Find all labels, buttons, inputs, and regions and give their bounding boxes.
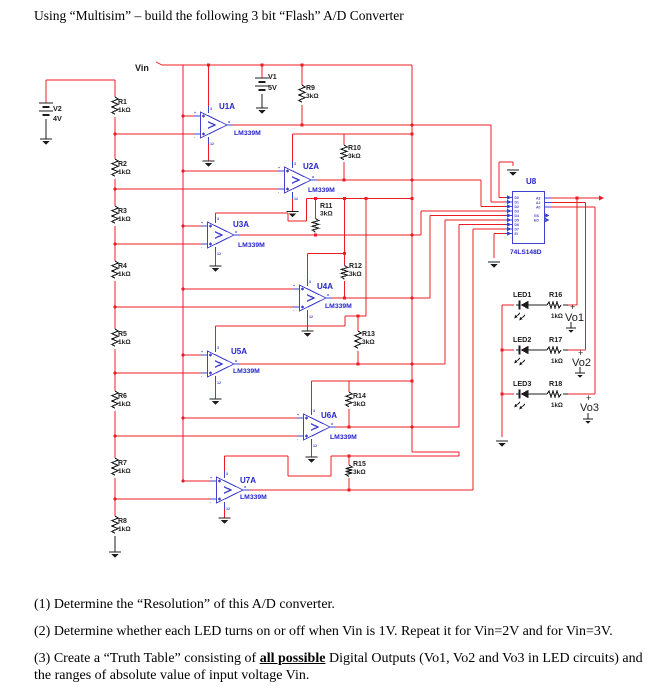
svg-text:R4: R4 [118,263,127,270]
svg-text:D0: D0 [515,196,519,200]
svg-text:R14: R14 [353,393,366,400]
svg-text:o: o [235,230,238,234]
svg-text:-: - [293,308,295,312]
svg-text:-: - [297,437,299,441]
svg-text:R12: R12 [349,263,362,270]
svg-text:1kΩ: 1kΩ [118,468,131,475]
svg-text:12: 12 [226,507,230,511]
svg-text:Vin: Vin [135,63,149,73]
svg-text:R13: R13 [362,331,375,338]
svg-text:o: o [244,485,247,489]
svg-text:-: - [194,135,196,139]
svg-text:V2: V2 [53,104,62,113]
svg-text:12: 12 [210,142,214,146]
svg-text:1kΩ: 1kΩ [118,216,131,223]
svg-text:U1A: U1A [219,102,235,111]
svg-text:R1: R1 [118,99,127,106]
svg-text:D1: D1 [515,201,519,205]
svg-text:3: 3 [309,280,311,284]
svg-text:5V: 5V [268,83,277,92]
svg-text:-: - [201,245,203,249]
svg-text:LED2: LED2 [513,335,531,344]
svg-text:U3A: U3A [233,220,249,229]
svg-text:3kΩ: 3kΩ [353,469,366,476]
svg-text:12: 12 [309,315,313,319]
svg-text:R15: R15 [353,461,366,468]
svg-text:R5: R5 [118,331,127,338]
svg-text:LM339M: LM339M [233,368,260,375]
svg-text:12: 12 [294,197,298,201]
svg-text:Vo3: Vo3 [580,402,599,414]
svg-text:Vo1: Vo1 [565,312,584,324]
svg-text:o: o [228,120,231,124]
svg-text:LM339M: LM339M [240,494,267,501]
svg-text:3: 3 [217,346,219,350]
svg-text:Vo2: Vo2 [572,357,591,369]
svg-text:R6: R6 [118,393,127,400]
svg-text:12: 12 [217,252,221,256]
svg-text:A1: A1 [536,201,540,205]
svg-text:EI: EI [515,232,518,236]
svg-text:1kΩ: 1kΩ [551,402,563,409]
svg-text:1kΩ: 1kΩ [551,313,563,320]
svg-text:LED1: LED1 [513,290,531,299]
svg-text:D3: D3 [515,210,519,214]
svg-text:LM339M: LM339M [308,187,335,194]
svg-text:-: - [201,374,203,378]
svg-text:LM339M: LM339M [330,434,357,441]
svg-text:-: - [210,500,212,504]
svg-text:D5: D5 [515,219,519,223]
svg-text:R2: R2 [118,161,127,168]
svg-text:3kΩ: 3kΩ [362,339,375,346]
svg-text:o: o [331,422,334,426]
svg-text:+: + [201,221,203,225]
svg-text:o: o [312,175,315,179]
svg-text:U7A: U7A [240,476,256,485]
svg-text:R11: R11 [320,203,333,210]
svg-text:R3: R3 [118,208,127,215]
svg-text:+: + [201,350,203,354]
svg-text:U8: U8 [526,177,537,186]
svg-text:3: 3 [294,162,296,166]
svg-text:12: 12 [313,444,317,448]
svg-text:D4: D4 [515,214,519,218]
svg-text:3kΩ: 3kΩ [348,153,361,160]
svg-text:+: + [210,476,212,480]
svg-text:D2: D2 [515,205,519,209]
svg-text:12: 12 [217,381,221,385]
svg-text:1kΩ: 1kΩ [118,526,131,533]
svg-text:U2A: U2A [303,162,319,171]
svg-text:74LS148D: 74LS148D [510,249,542,256]
svg-text:+: + [194,111,196,115]
svg-text:1kΩ: 1kΩ [118,169,131,176]
svg-text:LM339M: LM339M [238,242,265,249]
svg-text:A2: A2 [536,197,540,201]
svg-text:3kΩ: 3kΩ [306,93,319,100]
svg-text:EO: EO [534,219,539,223]
svg-text:LM339M: LM339M [325,303,352,310]
svg-text:GS: GS [534,214,540,218]
svg-text:1kΩ: 1kΩ [118,401,131,408]
svg-text:U6A: U6A [321,411,337,420]
svg-text:3kΩ: 3kΩ [320,211,333,218]
svg-text:3: 3 [313,409,315,413]
svg-text:R17: R17 [549,335,562,344]
svg-text:U4A: U4A [317,282,333,291]
svg-text:V1: V1 [268,72,277,81]
svg-text:A0: A0 [536,206,540,210]
svg-text:R9: R9 [306,85,315,92]
svg-text:4V: 4V [53,114,62,123]
svg-text:3: 3 [226,472,228,476]
svg-text:o: o [327,293,330,297]
svg-text:U5A: U5A [231,347,247,356]
svg-text:D7: D7 [515,228,519,232]
svg-text:-: - [278,190,280,194]
svg-text:1kΩ: 1kΩ [118,271,131,278]
svg-text:+: + [278,166,280,170]
svg-text:1kΩ: 1kΩ [118,339,131,346]
svg-text:LED3: LED3 [513,379,531,388]
svg-text:3kΩ: 3kΩ [349,271,362,278]
svg-text:R7: R7 [118,460,127,467]
svg-text:+: + [297,413,299,417]
svg-text:R8: R8 [118,518,127,525]
svg-text:R18: R18 [549,379,562,388]
svg-text:LM339M: LM339M [234,130,261,137]
svg-text:+: + [293,284,295,288]
svg-text:3kΩ: 3kΩ [353,401,366,408]
svg-text:1kΩ: 1kΩ [118,107,131,114]
svg-text:3: 3 [210,107,212,111]
svg-text:1kΩ: 1kΩ [551,358,563,365]
svg-text:R16: R16 [549,290,562,299]
svg-text:R10: R10 [348,145,361,152]
svg-text:D6: D6 [515,223,519,227]
svg-text:+: + [570,302,575,312]
svg-text:o: o [235,359,238,363]
svg-text:3: 3 [217,217,219,221]
